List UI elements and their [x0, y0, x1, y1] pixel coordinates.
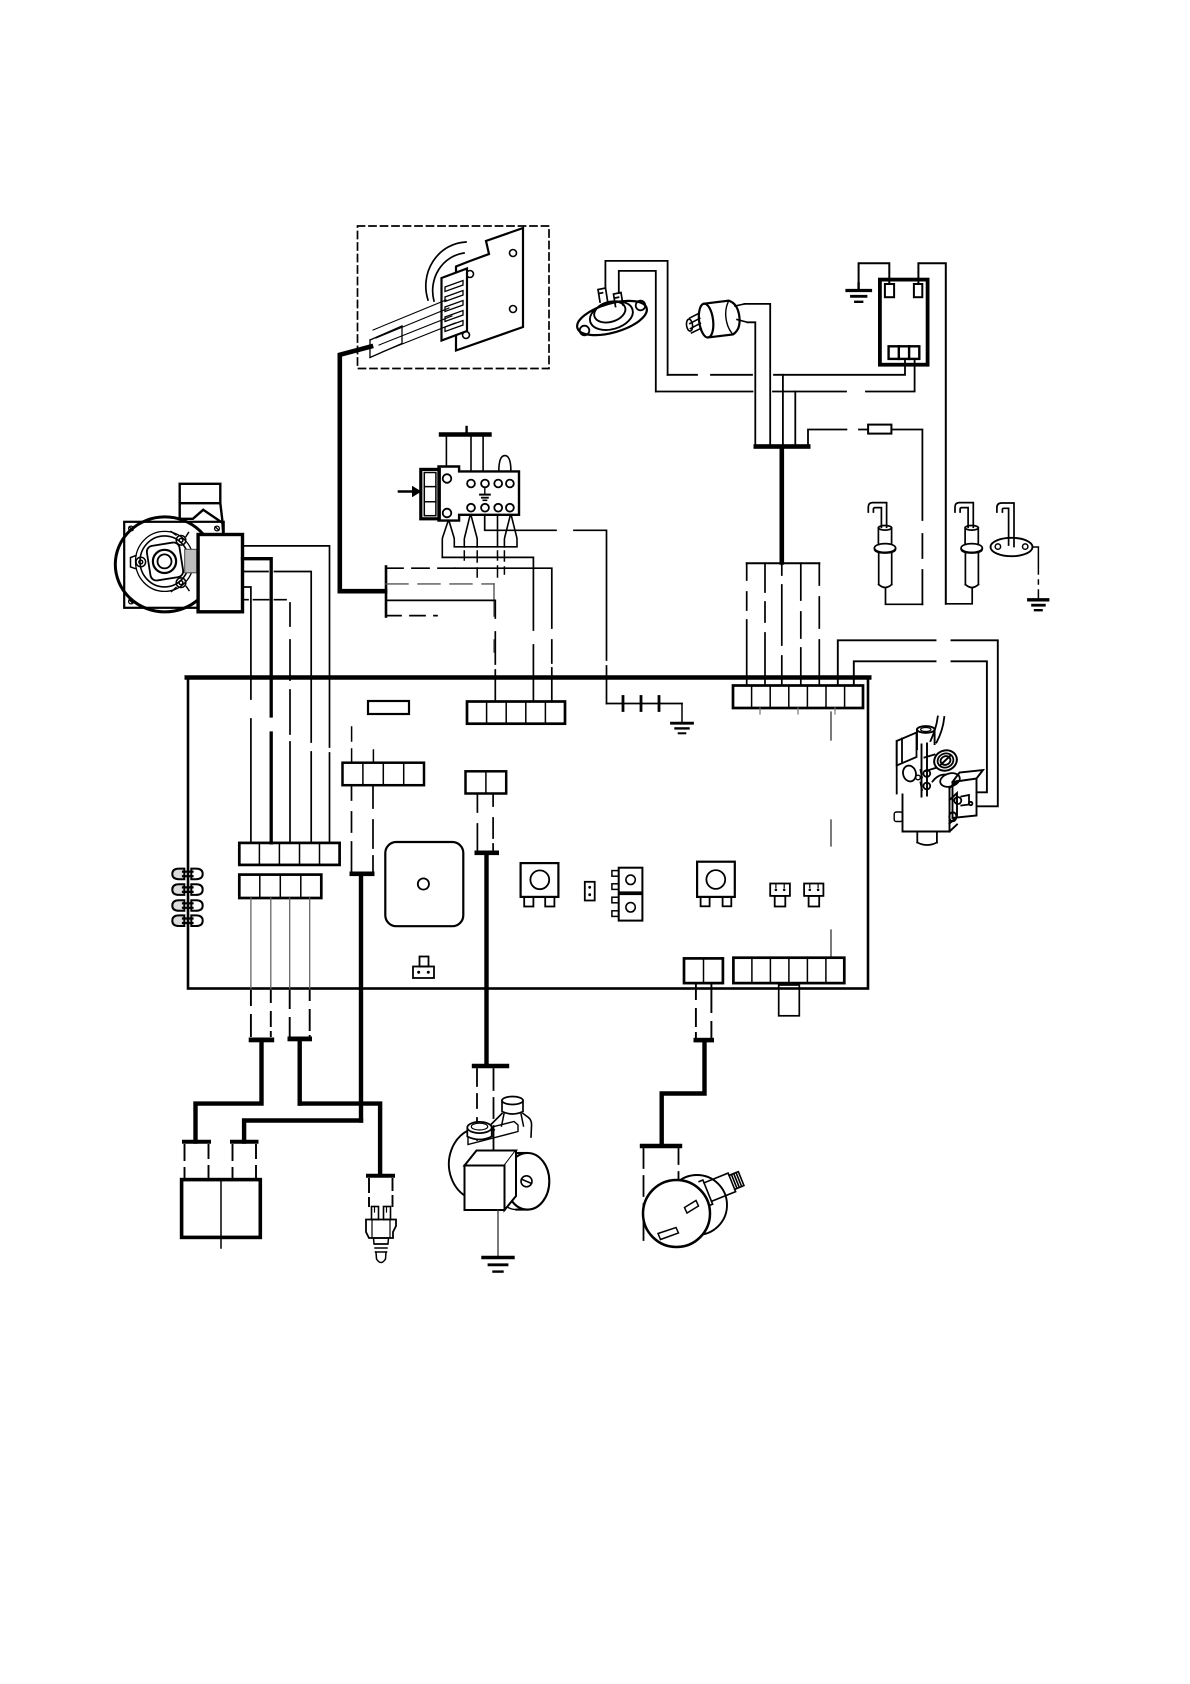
wire loom fanout 3 to terminal strip	[781, 563, 783, 685]
ground symbol on PCB	[681, 704, 683, 723]
spark electrode 2	[955, 503, 982, 588]
wire DHW sensor lower lead down to loom bar	[748, 322, 756, 444]
wire wedge1 to PCB strip	[442, 557, 533, 701]
junction bar pressure switch wire	[694, 1038, 715, 1043]
terminal block bottom left	[182, 1180, 261, 1238]
wire loom fanout 1 to terminal strip	[746, 563, 748, 685]
fan outlet duct	[180, 484, 224, 535]
ignition connector left socket	[421, 469, 440, 518]
air pressure switch cable sheath outline	[370, 326, 402, 358]
wire B overheat thermostat right terminal to ignition unit	[619, 271, 656, 392]
wedge bus bar	[454, 546, 517, 548]
water pressure switch front face	[643, 1180, 710, 1247]
LED indicators row 4	[172, 915, 202, 926]
edge connector tab below X8	[779, 985, 800, 1016]
pump vent collar	[467, 1122, 491, 1140]
gas valve centre column	[922, 744, 928, 797]
dashed trace below strip X2	[830, 712, 832, 957]
wire resistor to spark electrode 1	[891, 430, 922, 605]
wire fan lead 1	[243, 546, 330, 843]
terminal strip X2 top right 7 cells	[733, 686, 863, 709]
wire spark electrode 2 lead	[946, 589, 972, 604]
ignition connector body	[439, 467, 520, 521]
connector P1	[770, 884, 790, 907]
flame sensing electrode flange	[991, 538, 1033, 556]
gas valve bottom stub	[917, 832, 937, 846]
wire loom fanout 2 to terminal strip	[764, 563, 766, 685]
flame sensing electrode rod	[997, 503, 1014, 547]
air pressure switch connector slots	[445, 281, 463, 332]
PCB top edge thick	[187, 675, 870, 679]
loom junction bar	[754, 444, 811, 449]
terminal strip X5 mid 4 cells	[343, 763, 425, 786]
ignition transformer box	[880, 280, 928, 365]
wire thick pair2 stem	[298, 1041, 302, 1103]
wire bracket line 4 dashed	[386, 615, 437, 617]
fan connector gray block	[185, 549, 197, 573]
water pressure switch threaded stub	[699, 1167, 746, 1206]
air pressure switch harness wires	[373, 300, 455, 352]
gas valve adjuster bolts	[921, 770, 931, 790]
cable thick loom to PCB fanout	[779, 449, 784, 563]
air pressure switch diaphragm housing	[426, 242, 466, 301]
wire bracket line 2 gray dashed	[386, 583, 494, 585]
gas valve side port	[949, 812, 956, 821]
gas valve left oval port	[901, 764, 917, 783]
fanout bar	[747, 562, 820, 564]
gas valve main body	[903, 781, 958, 832]
key jumper component	[413, 957, 434, 979]
wire branch from wire A down to loom bar	[782, 375, 784, 445]
gas valve operator block	[953, 770, 984, 818]
relay K2 coil circle	[706, 870, 725, 889]
resistor R1	[868, 425, 891, 434]
fan motor ring 2	[140, 536, 189, 587]
fan motor face plate	[146, 542, 184, 582]
water pressure switch slots	[685, 1201, 699, 1214]
pump motor disc front	[506, 1153, 550, 1210]
DHW sensor threaded stud	[685, 313, 701, 333]
connector wedge pin 2	[464, 515, 477, 547]
connector P2	[804, 884, 823, 907]
wire bracket line 1 to PCB strip	[386, 567, 455, 569]
wire dashed X6 to pump bar	[476, 794, 478, 851]
relay K2 feet	[701, 897, 710, 906]
air pressure switch dashed enclosure	[358, 226, 550, 369]
air pressure switch corner holes	[463, 250, 517, 339]
stubs below strip X2	[760, 708, 835, 714]
wire thick to water pressure switch	[662, 1042, 705, 1145]
NTC sensor threaded tip	[374, 1238, 389, 1263]
gas valve coil to body lines	[925, 755, 936, 772]
dashed stubs above strip X5	[351, 727, 353, 763]
wire ignition box left pin to ground	[859, 263, 890, 284]
jumper J1	[585, 882, 595, 901]
ignition connector pin circles top row	[467, 480, 514, 488]
fan scroll housing	[115, 517, 214, 612]
fan motor hub circles	[153, 550, 176, 573]
relay module centre hole	[418, 878, 429, 889]
connector wedge pin 1	[442, 521, 454, 558]
ground symbol inside connector	[480, 487, 490, 500]
ground symbol at pump	[483, 1256, 513, 1259]
air pressure switch APS body plate	[456, 228, 523, 351]
ground symbol at ignition box	[847, 284, 871, 302]
block connector 1	[184, 1140, 209, 1144]
air pressure switch connector bank	[442, 269, 468, 341]
mains plug bar tick	[465, 427, 467, 432]
wire resistor lead left to loom bar	[808, 430, 868, 445]
wire spark electrode 1 lead	[886, 589, 923, 605]
overheat thermostat body disc	[586, 296, 636, 335]
LED indicators row 3	[172, 900, 202, 911]
wires gray below strip X4	[251, 898, 310, 988]
wire pump to ground	[497, 1210, 499, 1256]
wire flame electrode to ground	[1033, 547, 1039, 598]
wire fan lead 4	[243, 587, 251, 843]
NTC sensor spade terminals	[372, 1207, 391, 1220]
relay K2	[697, 862, 735, 897]
wire thick CH elbow to block connector 2	[244, 1121, 361, 1142]
ignition connector dome	[499, 456, 511, 472]
relay K1 feet	[524, 897, 533, 907]
relay K1 coil circle	[530, 870, 549, 889]
fan motor outer ring	[136, 531, 194, 591]
arrow pointing to connector	[399, 490, 413, 493]
fan plate corner screws	[129, 526, 220, 604]
gas valve lead wires	[931, 717, 938, 742]
gas valve operator bolt	[954, 795, 972, 806]
gas valve outlet pipe	[933, 771, 962, 789]
wire plug bar to connector pin 1	[445, 437, 447, 467]
gas valve coil slot screw	[941, 756, 950, 765]
DHW sensor leads	[735, 304, 745, 306]
gas valve left stub	[894, 812, 902, 822]
fuse F1	[368, 701, 409, 714]
wire fan lead 3	[243, 572, 312, 843]
fan motor ear screws	[131, 532, 190, 592]
pump motor disc rim	[495, 1153, 539, 1210]
PCB main board outline	[188, 678, 868, 989]
overheat thermostat spade terminals	[598, 288, 623, 307]
ignition connector left socket cells	[424, 473, 436, 516]
pump strap plate	[468, 1122, 518, 1145]
wire dashed X7 below PCB	[696, 985, 712, 1037]
opto coupler block lower	[612, 894, 643, 921]
gas valve top port	[917, 726, 935, 749]
LED indicators row 1	[172, 869, 202, 880]
wire ignition box right pin to spark electrode 2	[918, 263, 945, 604]
terminal block divider	[220, 1180, 222, 1248]
wire thick junction horizontal to NTC	[300, 1104, 380, 1174]
pump body scroll	[449, 1127, 494, 1198]
terminal strip X6 2 cells	[466, 771, 507, 793]
ignition transformer pin right	[914, 284, 922, 297]
wire loom fanout 4 to terminal strip	[800, 563, 802, 685]
terminal strip X7 bottom 2 cells	[684, 958, 723, 983]
terminal strip X1 top centre 5 cells	[467, 702, 565, 724]
pump connector	[474, 1064, 507, 1068]
PCB earth line with crossing ticks	[607, 703, 683, 705]
wire dashed X5 to pump bar left	[351, 785, 353, 871]
wire thick pair1 to block connector 1	[196, 1042, 262, 1141]
pump bleed plug	[502, 1097, 524, 1127]
wedge dashed continuations	[464, 551, 504, 577]
NTC sensor connector	[368, 1174, 393, 1178]
wire PCB strip cell7 loop to gas valve inner	[854, 661, 987, 792]
terminal strip X8 bottom 6 cells	[733, 958, 844, 983]
terminal strip X3 left 5 cells	[239, 843, 339, 865]
mains plug bar above connector	[441, 432, 490, 436]
spark electrode 1	[868, 503, 895, 588]
wire loom fanout 5 to terminal strip	[818, 563, 820, 685]
wire bracket line 3 to PCB strip	[386, 600, 495, 701]
wire dashed pair 2 below PCB	[290, 991, 310, 1037]
wire A overheat thermostat left terminal to ignition unit	[605, 261, 667, 375]
wire plug bar to connector pin 3	[482, 437, 484, 472]
opto coupler block upper	[612, 868, 643, 893]
DHW sensor body	[697, 300, 741, 339]
pump manifold arm	[492, 1114, 532, 1138]
relay module rounded	[385, 842, 463, 926]
harness bracket bar	[385, 567, 388, 617]
wire thick CH vertical through PCB	[359, 876, 363, 1120]
wire branch from wire B down to loom bar	[794, 392, 796, 445]
connector wedge pin 3	[504, 515, 517, 547]
wire PCB strip cell6 loop to gas valve outer	[838, 640, 998, 806]
wire thick pump vertical through PCB	[484, 855, 488, 1064]
wire dashed pair 1 below PCB	[251, 991, 271, 1036]
terminal strip X4 left 4 cells	[239, 875, 321, 898]
block connector 2	[232, 1140, 257, 1144]
wire fan lead 2 thick	[243, 559, 272, 843]
wire plug bar to connector pin 2	[470, 437, 472, 472]
pump shaft screw	[521, 1176, 532, 1187]
wire DHW sensor upper lead down to loom bar	[745, 304, 771, 445]
junction bar on PCB for CH wire	[350, 872, 375, 877]
pump junction box cube	[465, 1151, 517, 1211]
fan mounting plate	[124, 522, 224, 608]
overheat thermostat wing holes	[580, 326, 590, 336]
junction bar pair 1	[249, 1038, 275, 1043]
water pressure switch rear disc	[667, 1175, 727, 1235]
water pressure switch connector	[642, 1144, 680, 1148]
ignition transformer terminal strip	[889, 346, 920, 359]
junction bar pair 2	[288, 1037, 313, 1042]
gas valve solenoid coil	[931, 747, 959, 774]
ignition connector index circles	[443, 474, 452, 483]
overheat thermostat flange	[573, 294, 650, 342]
wire fan lead 5 dashed	[243, 599, 287, 601]
wire connector pin4 stub	[497, 515, 499, 547]
junction bar on PCB for pump wire	[475, 851, 500, 856]
LED indicators row 2	[172, 884, 202, 895]
ignition transformer pin left	[885, 284, 894, 297]
NTC sensor hex body	[366, 1220, 396, 1239]
ground symbol at flame electrode	[1029, 600, 1048, 610]
ignition connector pin circles bottom row	[467, 504, 514, 512]
relay K1	[521, 863, 559, 897]
gas valve left bracket	[897, 733, 917, 794]
wire thick from air pressure switch to harness bracket	[340, 347, 385, 592]
fan junction box	[198, 535, 242, 612]
wire connector ground pin to PCB earth	[485, 515, 607, 704]
wire dashed X5 to pump bar right	[372, 785, 374, 871]
